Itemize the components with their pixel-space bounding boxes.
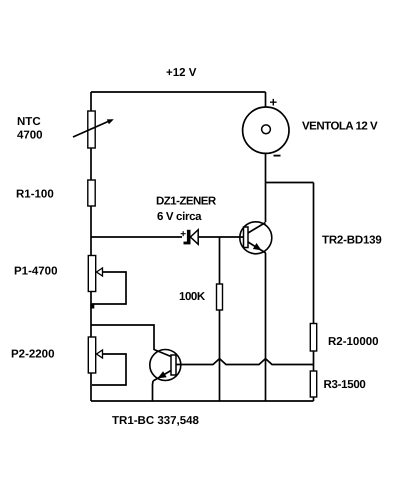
- svg-text:+: +: [270, 95, 278, 110]
- wire fan top lead: [265, 92, 267, 108]
- label + fan positive: [270, 95, 278, 110]
- svg-text:R1-100: R1-100: [16, 189, 54, 201]
- svg-text:100K: 100K: [179, 291, 206, 303]
- resistor R1-100: [88, 180, 95, 206]
- wire TR1 emitter lead: [152, 381, 155, 401]
- wire P2 wiper short: [92, 354, 126, 385]
- wire R1 to P1: [90, 206, 92, 255]
- svg-text:TR2-BD139: TR2-BD139: [322, 235, 382, 247]
- wire branch to right rail: [266, 182, 314, 184]
- svg-text:+: +: [180, 229, 186, 240]
- label R1-100: [16, 189, 54, 201]
- potentiometer P2-2200: [88, 337, 102, 373]
- svg-text:DZ1-ZENER: DZ1-ZENER: [156, 196, 217, 208]
- wire TR1 collector branch: [91, 325, 154, 350]
- label P2-2200: [11, 349, 54, 361]
- svg-text:VENTOLA 12 V: VENTOLA 12 V: [302, 121, 378, 133]
- label VENTOLA 12 V: [302, 121, 378, 133]
- wire TR2 emitter lead: [265, 253, 267, 401]
- svg-text:6 V circa: 6 V circa: [157, 211, 202, 223]
- label P1-4700: [14, 266, 57, 278]
- label - fan negative: [274, 155, 281, 157]
- resistor 100K: [217, 284, 223, 310]
- wire zener to TR2 base: [198, 236, 243, 238]
- transistor TR1: [150, 350, 181, 382]
- label DZ1-ZENER 6 V circa: [156, 196, 217, 224]
- wire zener branch: [91, 236, 182, 238]
- potentiometer P1-4700: [88, 256, 102, 292]
- svg-text:P2-2200: P2-2200: [11, 349, 54, 361]
- wire R2 to R3: [313, 351, 315, 371]
- wire bottom rail: [91, 400, 314, 402]
- resistor R3-1500: [310, 371, 316, 397]
- wire NTC to R1: [90, 148, 92, 180]
- thermistor NTC 4700: [73, 111, 114, 148]
- label R3-1500: [324, 379, 366, 391]
- wire right rail: [313, 183, 315, 324]
- svg-text:4700: 4700: [17, 130, 43, 142]
- label NTC 4700: [17, 116, 43, 142]
- label 100K: [179, 291, 206, 303]
- svg-text:TR1-BC 337,548: TR1-BC 337,548: [112, 415, 200, 427]
- label R2-10000: [328, 336, 379, 348]
- resistor R2-10000: [310, 324, 316, 352]
- wire NTC top lead: [90, 92, 92, 111]
- wire rail P1 to P2: [90, 292, 92, 338]
- svg-text:P1-4700: P1-4700: [14, 266, 57, 278]
- wire P1 wiper short: [92, 272, 126, 304]
- wire top rail +12V: [91, 91, 266, 93]
- wire rail P2 to ground: [90, 373, 92, 401]
- label TR2-BD139: [322, 235, 382, 247]
- wire fan to TR2 collector: [265, 153, 267, 222]
- wire R3 bottom lead: [313, 397, 315, 401]
- wire 100K bottom lead: [219, 310, 221, 401]
- label TR1-BC 337,548: [112, 415, 200, 427]
- wire TR1 base line with hops: [176, 359, 314, 365]
- transistor TR2: [240, 222, 272, 254]
- svg-text:NTC: NTC: [17, 116, 41, 128]
- label +12 V: [166, 67, 197, 79]
- svg-text:R3-1500: R3-1500: [324, 379, 366, 391]
- svg-text:R2-10000: R2-10000: [328, 336, 379, 348]
- svg-text:+12 V: +12 V: [166, 67, 197, 79]
- zener diode DZ1: [184, 230, 199, 245]
- wire 100K top lead: [219, 237, 221, 284]
- junction node P1 wiper/rail: [90, 304, 94, 309]
- label + zener polarity: [180, 229, 186, 240]
- fan VENTOLA motor symbol: [243, 107, 289, 153]
